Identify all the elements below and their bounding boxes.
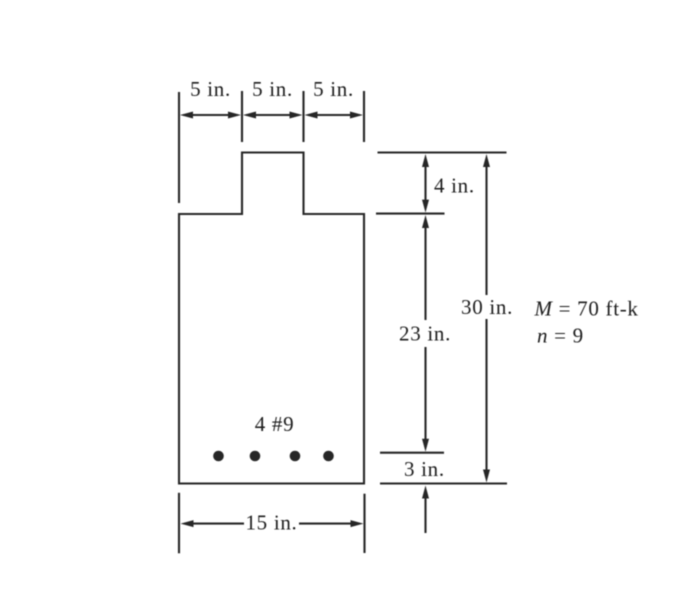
svg-text:n = 9: n = 9: [537, 324, 584, 348]
right extension line at flange bottom: [376, 213, 445, 215]
top dimension line segment 1 (5 in.): [180, 112, 241, 119]
svg-text:5 in.: 5 in.: [190, 77, 231, 101]
30 in. dimension line: [483, 154, 490, 483]
svg-text:4 #9: 4 #9: [255, 412, 295, 436]
svg-text:M = 70 ft-k: M = 70 ft-k: [534, 297, 639, 321]
23 in. dimension line: [422, 215, 429, 452]
rebar dot 1: [213, 451, 224, 462]
right extension line at beam bottom: [380, 482, 507, 484]
svg-text:23 in.: 23 in.: [399, 322, 451, 346]
right extension line at rebar level: [380, 452, 444, 454]
3 in. pointer arrow below beam: [422, 486, 429, 534]
svg-text:3 in.: 3 in.: [404, 457, 445, 481]
rebar dot 2: [250, 451, 261, 462]
top dimension line segment 3 (5 in.): [305, 112, 364, 119]
svg-text:15 in.: 15 in.: [245, 511, 297, 535]
15 in. dimension line: [181, 520, 364, 527]
beam cross-section outline: [179, 153, 364, 484]
4 in. dimension line: [422, 154, 429, 213]
top extension line 4: [363, 91, 365, 142]
right extension line at stem top: [378, 151, 507, 153]
svg-text:5 in.: 5 in.: [313, 77, 354, 101]
top extension line 1: [178, 92, 180, 203]
top dimension line segment 2 (5 in.): [243, 112, 303, 119]
svg-text:4 in.: 4 in.: [434, 174, 475, 198]
rebar dot 3: [290, 451, 301, 462]
svg-text:5 in.: 5 in.: [252, 77, 293, 101]
rebar dot 4: [323, 451, 334, 462]
top extension line 3: [302, 91, 304, 142]
bottom extension line right: [363, 494, 365, 553]
top extension line 2: [241, 91, 243, 142]
svg-text:30 in.: 30 in.: [461, 295, 513, 319]
bottom extension line left: [178, 493, 180, 554]
